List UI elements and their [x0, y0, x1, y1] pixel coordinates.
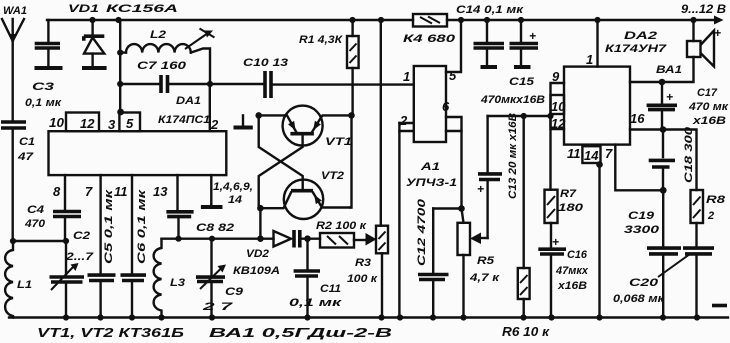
wire pin16 node to R8 [663, 130, 697, 191]
resistor R1 [299, 20, 359, 115]
ground bar at VT1 base circuit [234, 115, 253, 127]
svg-text:ВА1 0,5ГДш-2-В: ВА1 0,5ГДш-2-В [209, 326, 392, 340]
resistor R2 [316, 220, 368, 248]
svg-text:VD2: VD2 [246, 248, 269, 260]
wire C13/R6 to DA2 pins 9,10,12 [488, 115, 551, 117]
wire DA2 pin 16 [630, 128, 663, 130]
svg-text:5: 5 [126, 116, 134, 131]
svg-text:0,1 мк: 0,1 мк [289, 297, 343, 309]
svg-text:+: + [477, 182, 484, 196]
wire rail to L2/C7 node [119, 20, 121, 112]
svg-text:К174ПС1: К174ПС1 [158, 114, 210, 126]
capacitor C5 [88, 175, 116, 317]
trimmer capacitor C2 [50, 230, 95, 318]
svg-text:180: 180 [558, 202, 584, 214]
wire A1 pin 5 to rail [446, 20, 461, 72]
svg-text:7: 7 [605, 146, 613, 161]
capacitor C13 electrolytic [477, 113, 519, 238]
capacitor C19 [624, 190, 681, 317]
resistor R6 [502, 116, 550, 339]
svg-text:С13 20 мк х16В: С13 20 мк х16В [507, 113, 519, 199]
svg-text:5: 5 [449, 68, 457, 83]
svg-text:R2 100 к: R2 100 к [316, 220, 368, 232]
svg-text:0,068 мк: 0,068 мк [613, 293, 666, 305]
svg-text:100 к: 100 к [347, 273, 379, 285]
node dot VT1 right / R1 [348, 112, 355, 119]
svg-text:+: + [552, 235, 559, 249]
svg-text:С15: С15 [509, 76, 535, 88]
wire rail to DA2 pin 1 [596, 20, 598, 67]
wire bottom common rail [9, 316, 728, 318]
svg-text:2...7: 2...7 [65, 251, 94, 263]
svg-text:А1: А1 [420, 161, 440, 173]
svg-text:10: 10 [551, 99, 566, 114]
wiper arrow into R3 [366, 233, 377, 246]
svg-text:11: 11 [567, 146, 581, 161]
svg-text:470: 470 [24, 218, 46, 230]
capacitor C16 electrolytic [538, 223, 589, 318]
capacitor C15 electrolytic [480, 20, 545, 106]
svg-text:2: 2 [707, 210, 714, 222]
resistor R8 [691, 190, 727, 223]
svg-text:11: 11 [114, 184, 128, 199]
capacitor C18 [649, 126, 695, 190]
varicap VD2 KV109A [233, 230, 300, 277]
svg-text:2: 2 [210, 117, 219, 132]
svg-text:6: 6 [442, 99, 450, 114]
svg-text:С7 160: С7 160 [137, 60, 187, 72]
module A1 UPCh3-1 [399, 66, 462, 318]
node rail junction dots [89, 17, 696, 23]
node dot C19 top [660, 187, 667, 194]
svg-text:4,7 к: 4,7 к [469, 272, 501, 284]
svg-text:К174УН7: К174УН7 [605, 43, 667, 55]
capacitor C7 [120, 60, 210, 93]
wire C1/L1 to C2 node [13, 240, 66, 242]
capacitor C8 [166, 175, 234, 239]
svg-text:С11: С11 [320, 283, 341, 295]
svg-text:VT1: VT1 [325, 136, 352, 148]
transistor VT2 [260, 170, 350, 219]
svg-text:1: 1 [586, 52, 593, 67]
svg-text:С19: С19 [628, 210, 655, 222]
svg-text:2 7: 2 7 [201, 301, 234, 313]
svg-text:13: 13 [153, 184, 168, 199]
svg-text:WA1: WA1 [3, 5, 27, 17]
wire rail to R3 top [380, 20, 382, 226]
svg-text:DA2: DA2 [624, 30, 657, 42]
capacitor C20 [613, 223, 714, 318]
svg-text:47: 47 [17, 151, 34, 163]
svg-text:L3: L3 [170, 277, 185, 289]
node dot A1 pin6/C12/R5 [458, 205, 465, 212]
wire C12 top [433, 207, 461, 209]
wire DA2 pin 14 to common [598, 163, 600, 318]
resistor R7 [545, 188, 585, 223]
svg-text:9...12 В: 9...12 В [681, 2, 726, 16]
svg-text:С9: С9 [225, 286, 244, 298]
node dot C8 bottom [175, 236, 181, 242]
svg-text:С12 4700: С12 4700 [416, 198, 428, 266]
svg-text:С8 82: С8 82 [196, 222, 234, 234]
node dot C7/C10 [207, 81, 213, 87]
IC DA1 K174PS1 [49, 95, 227, 175]
svg-text:R6 10 к: R6 10 к [502, 325, 550, 339]
IC DA2 K174UN7 [551, 30, 668, 163]
wire top supply rail [47, 16, 724, 25]
inductor L2 [120, 29, 210, 84]
svg-text:+: + [529, 29, 536, 43]
svg-text:х16В: х16В [692, 115, 726, 127]
tuning arrow of L2 [185, 29, 215, 50]
svg-text:0,1 мк: 0,1 мк [25, 97, 63, 109]
node dot DA2 left pins [547, 113, 553, 119]
node dot VT2/VD2 [257, 235, 264, 242]
svg-text:C2: C2 [73, 230, 90, 242]
svg-text:ВА1: ВА1 [656, 64, 682, 76]
node dot C17/C18/pin16 [660, 126, 667, 133]
svg-text:VT1, VT2 КТ361Б: VT1, VT2 КТ361Б [37, 326, 184, 340]
transistor VT1 [259, 106, 352, 148]
svg-text:14: 14 [228, 194, 242, 206]
wire DA2 pin 9 [551, 83, 565, 116]
node dot R6 top [521, 113, 527, 119]
svg-text:С20: С20 [629, 277, 659, 289]
wire AM detector net y239 [162, 237, 321, 239]
svg-text:+: + [714, 26, 721, 40]
svg-text:С14 0,1 мк: С14 0,1 мк [456, 4, 525, 16]
ground bar DA1 pins 1,4,6,9,14 [201, 175, 253, 207]
svg-text:С17: С17 [697, 87, 718, 99]
node dot VT1 left [255, 112, 262, 119]
svg-text:L1: L1 [17, 279, 32, 291]
wire VT1 collector to R1 [350, 115, 351, 207]
trimmer capacitor C9 [196, 239, 244, 318]
svg-text:R1 4,3К: R1 4,3К [299, 34, 343, 46]
wire DA2 pins to R7 [549, 116, 551, 190]
svg-text:R5: R5 [477, 255, 495, 267]
svg-text:2: 2 [399, 113, 408, 128]
node dot C9 top [209, 236, 215, 242]
wire DA2 pin 7 to C19 node [615, 145, 663, 191]
capacitor C1 [1, 122, 35, 241]
wire VT1/VT2 cross coupling [259, 115, 303, 208]
resistor R3 [347, 226, 388, 318]
svg-text:R3: R3 [355, 257, 371, 269]
zener diode VD1 [68, 3, 178, 68]
capacitor C17 electrolytic [647, 82, 730, 130]
svg-text:С18 300: С18 300 [683, 126, 695, 183]
resistor R4 [403, 14, 456, 45]
svg-text:470мкх16В: 470мкх16В [480, 94, 545, 106]
svg-text:7: 7 [85, 184, 93, 199]
inductor L1 [5, 241, 32, 318]
svg-text:С5 0,1 мк: С5 0,1 мк [103, 188, 115, 264]
svg-text:3: 3 [108, 117, 116, 132]
svg-text:1,4,6,9,: 1,4,6,9, [213, 181, 253, 193]
svg-text:3300: 3300 [624, 224, 660, 236]
wire L2 right leg down to DA1 pin 2 [209, 84, 211, 131]
node dot C4/C2 [63, 238, 69, 244]
svg-text:VT2: VT2 [321, 170, 344, 182]
capacitor C10 [210, 57, 414, 98]
node dot pin6/C17 [659, 79, 666, 86]
capacitor C11 [289, 239, 343, 318]
svg-text:УПЧЗ-1: УПЧЗ-1 [406, 177, 457, 189]
svg-text:С16: С16 [567, 249, 588, 261]
svg-text:10: 10 [49, 115, 65, 130]
svg-text:14: 14 [584, 148, 599, 163]
svg-text:КС156А: КС156А [106, 3, 178, 15]
wire A1 pin 6 down to R5 node [446, 117, 462, 209]
svg-text:R8: R8 [706, 194, 726, 206]
node dot L1 top [10, 238, 16, 244]
svg-text:9: 9 [552, 69, 560, 84]
capacitor C4 [24, 175, 81, 241]
node dot VT2 left [257, 205, 264, 212]
inductor L3 [154, 239, 185, 318]
node dot below pin14 [596, 161, 603, 168]
svg-text:47мкх: 47мкх [555, 265, 589, 277]
svg-text:DA1: DA1 [176, 95, 201, 107]
wire DA2 pin 12 [551, 114, 565, 129]
svg-text:VD1: VD1 [68, 3, 99, 15]
capacitor C3 [25, 20, 63, 109]
svg-text:C3: C3 [32, 81, 54, 93]
svg-text:1: 1 [403, 69, 410, 84]
svg-text:12: 12 [80, 116, 95, 131]
capacitor C6 [121, 175, 149, 317]
node dot C11 top [304, 235, 311, 242]
svg-text:+: + [666, 90, 673, 104]
svg-text:C1: C1 [19, 136, 35, 148]
wire VT2 to VD2 [259, 208, 261, 239]
loudspeaker BA1 [630, 20, 721, 82]
svg-text:8: 8 [53, 184, 61, 199]
svg-text:С6 0,1 мк: С6 0,1 мк [136, 188, 148, 264]
node dots on x120 line [117, 50, 124, 116]
node bottom rail dots [63, 314, 700, 320]
svg-text:16: 16 [630, 111, 645, 126]
minus terminal mark [712, 304, 727, 308]
svg-text:х16В: х16В [557, 280, 587, 292]
potentiometer R5 [458, 209, 501, 318]
svg-text:С10 13: С10 13 [243, 57, 288, 69]
capacitor C14 [456, 4, 525, 67]
svg-text:КВ109А: КВ109А [233, 265, 280, 277]
svg-text:К4 680: К4 680 [403, 33, 456, 45]
svg-text:L2: L2 [150, 29, 166, 41]
svg-text:C4: C4 [27, 204, 44, 216]
svg-text:470 мк: 470 мк [688, 101, 730, 113]
svg-text:R7: R7 [560, 188, 577, 200]
antenna WA1 [2, 5, 27, 120]
capacitor C12 [416, 198, 449, 318]
